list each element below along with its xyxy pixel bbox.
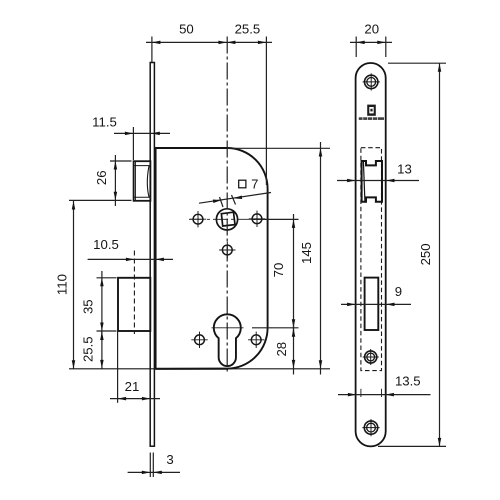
dimension 28	[293, 322, 295, 375]
svg-text:25.5: 25.5	[235, 21, 261, 36]
svg-text:250: 250	[418, 243, 433, 265]
svg-text:70: 70	[271, 263, 286, 278]
faceplate front view stadium	[356, 63, 386, 446]
spindle hub circle	[216, 209, 237, 230]
deadbolt side view	[118, 278, 150, 331]
dimension 70	[252, 214, 299, 333]
screw boss right of cylinder	[248, 332, 264, 348]
svg-text:9: 9	[395, 284, 402, 299]
dimension 9	[341, 303, 411, 305]
screw boss right of spindle	[249, 211, 265, 227]
svg-text:20: 20	[364, 21, 379, 36]
euro profile cylinder hole	[214, 314, 241, 366]
latch bevel line	[363, 162, 365, 202]
svg-text:11.5: 11.5	[92, 115, 117, 130]
deadbolt cutout front view	[365, 278, 379, 330]
dimension 25.5 top	[227, 41, 236, 45]
svg-text:110: 110	[54, 274, 69, 295]
deadbolt retracted dashed line	[133, 251, 135, 335]
svg-text:26: 26	[94, 170, 109, 185]
spindle square hole 7mm	[221, 212, 235, 226]
dimension 13.5 extension ticks	[361, 389, 382, 397]
dimension 145	[228, 142, 330, 375]
cylinder horizontal centerline	[212, 327, 244, 329]
lock case hidden dashed rectangle	[361, 148, 382, 371]
dimension 20	[350, 37, 392, 58]
svg-text:13: 13	[397, 162, 412, 177]
dimension 13	[337, 180, 419, 182]
dimension 25.5 left	[101, 331, 103, 369]
latch cutout front view	[362, 161, 382, 202]
manufacturer logo	[359, 105, 384, 120]
screw boss below spindle	[219, 242, 235, 258]
dimension 21	[110, 331, 160, 403]
bottom screw hole	[362, 419, 379, 436]
screw boss left of spindle	[190, 211, 206, 227]
svg-text:35: 35	[81, 299, 96, 314]
dimension 35	[97, 271, 117, 337]
lock case outline	[156, 148, 268, 369]
svg-text:28: 28	[274, 342, 289, 357]
svg-text:50: 50	[179, 21, 194, 36]
dimension square 7	[199, 193, 271, 208]
spindle horizontal centerline	[189, 218, 266, 220]
svg-text:145: 145	[299, 242, 314, 264]
svg-text:13.5: 13.5	[395, 373, 421, 388]
dimension 13.5	[338, 394, 431, 396]
dimension 26	[110, 155, 132, 206]
dimension 10.5	[88, 258, 173, 260]
case bottom line with extensions	[69, 368, 330, 370]
svg-text:25.5: 25.5	[81, 336, 96, 362]
svg-text:10.5: 10.5	[93, 237, 119, 252]
svg-text:21: 21	[125, 379, 140, 394]
dimension 11.5	[114, 127, 170, 160]
dimension 250	[378, 63, 446, 446]
dimension 50	[146, 37, 272, 186]
dimension 3	[128, 453, 180, 478]
top screw hole	[363, 73, 380, 90]
middle screw hole	[363, 349, 379, 365]
dimension 110	[69, 200, 110, 368]
svg-text:3: 3	[166, 452, 173, 467]
faceplate side view	[150, 63, 154, 447]
latch bolt side view	[134, 161, 151, 201]
svg-text:7: 7	[251, 176, 258, 191]
vertical centerline	[226, 37, 228, 372]
screw boss left of cylinder	[191, 332, 207, 348]
